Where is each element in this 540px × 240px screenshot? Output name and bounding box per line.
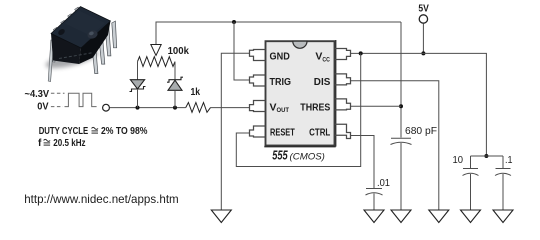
ground: under .01 (364, 210, 384, 223)
wire: VOUT line left of resistor (109, 107, 185, 109)
wire: bypass caps top rail (471, 155, 504, 157)
svg-text:(CMOS): (CMOS) (290, 152, 325, 163)
faint print on side face (59, 53, 92, 59)
diode D1 (schottky, anode top) (130, 80, 146, 108)
node: junction bypass caps (484, 154, 488, 158)
diode D2 (schottky, cathode top) (167, 77, 183, 107)
node: junction VCC / RESET loop (359, 51, 363, 55)
node: junction on top wire to TRIG (232, 20, 236, 24)
pin 7 DIS stub (335, 74, 351, 85)
svg-text:2% TO 98%: 2% TO 98% (101, 126, 148, 137)
svg-text:DUTY CYCLE: DUTY CYCLE (39, 126, 89, 137)
pin 5 CTRL stub (335, 124, 351, 138)
op-amp/timer U1 555 body (264, 40, 336, 147)
ground: under 10uF (461, 210, 481, 223)
back row leg nubs (upper-left edge) (53, 7, 79, 32)
potentiometer R1 100k (138, 45, 176, 67)
chip 3d bottom edge (264, 146, 335, 148)
node: junction left diode bottom (136, 106, 140, 110)
svg-text:10: 10 (453, 155, 464, 166)
capacitor C2 10uF (463, 156, 479, 210)
pot resistor body (138, 57, 176, 67)
node: junction THRES line (399, 104, 403, 108)
body left end face (51, 34, 81, 65)
end notch half-circle (57, 28, 66, 37)
wire: VOUT line right of resistor (211, 107, 251, 109)
capacitor C1 680pF (391, 138, 412, 210)
svg-text:680 pF: 680 pF (405, 125, 437, 137)
wire: CTRL pin line to .01 cap (350, 136, 374, 189)
top face sheen (65, 11, 105, 37)
svg-text:555: 555 (272, 148, 288, 163)
wire: DIS pin line to ground (350, 81, 439, 210)
pot wiper arrow (151, 45, 161, 56)
svg-text:~4.3V: ~4.3V (25, 88, 50, 100)
capacitor C4 .01uF (366, 189, 383, 211)
svg-text:CTRL: CTRL (309, 127, 331, 139)
right (front) legs (92, 21, 117, 73)
capacitor C3 0.1uF (495, 156, 511, 210)
wire: TRIG branch (234, 22, 250, 80)
svg-text:TRIG: TRIG (270, 76, 292, 88)
svg-text:.1: .1 (505, 155, 513, 166)
svg-text:RESET: RESET (270, 127, 295, 139)
chip notch (293, 41, 307, 48)
ground: under 0.1uF (493, 210, 513, 223)
waveform: output square wave (51, 93, 97, 106)
wire: top wire from pot wiper to THRES drop (156, 22, 401, 44)
svg-text:f: f (38, 138, 42, 149)
body front side face (79, 21, 111, 64)
terminal: output circle (103, 104, 110, 111)
pin 6 THRES stub (335, 99, 351, 110)
resistor R2 1k (186, 103, 211, 113)
svg-text:.01: .01 (377, 178, 390, 189)
wire: pot left end to diode D1 (137, 62, 139, 80)
svg-text:20.5 kHz: 20.5 kHz (53, 138, 85, 149)
svg-text:100k: 100k (168, 46, 190, 57)
chip shadow (44, 46, 100, 72)
pin 3 VOUT stub (250, 101, 266, 112)
node: junction right diode bottom (173, 106, 177, 110)
svg-text:THRES: THRES (300, 101, 330, 113)
ground: under 680pF (391, 210, 411, 223)
pin 2 TRIG stub (250, 75, 266, 86)
svg-text:GND: GND (270, 51, 291, 63)
wire: THRES pin line (350, 105, 401, 107)
ground: GND pin (211, 210, 231, 223)
wire: RESET loop under chip to VCC (236, 53, 360, 166)
svg-text:5V: 5V (418, 3, 429, 14)
wire: pot right end to diode D2 (174, 62, 176, 80)
photo: DIP-8 IC package (44, 7, 116, 82)
pin 8 VCC stub (335, 49, 351, 60)
svg-text:0V: 0V (37, 101, 48, 113)
wire: THRES vertical drop from top wire to 680pF (400, 22, 402, 138)
wire: VCC pin line (350, 53, 486, 156)
left long legs (48, 40, 56, 82)
wire: GND pin to ground (221, 53, 250, 210)
dimple (86, 29, 99, 40)
body top face (51, 7, 111, 49)
svg-text:http://www.nidec.net/apps.htm: http://www.nidec.net/apps.htm (24, 192, 179, 206)
ground: DIS (429, 210, 449, 223)
pin 4 RESET stub (250, 126, 266, 137)
svg-text:1k: 1k (191, 87, 201, 98)
pin 1 GND stub (250, 50, 266, 61)
svg-text:DIS: DIS (314, 76, 331, 88)
